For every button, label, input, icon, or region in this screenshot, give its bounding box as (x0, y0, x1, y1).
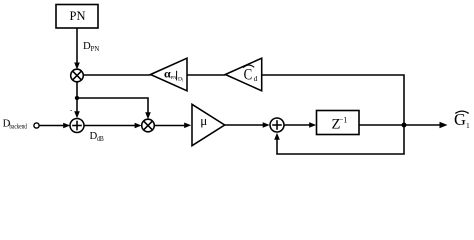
wire junction1 to adder S1 (74, 98, 80, 118)
wire multiplier X2 to mu (154, 123, 191, 129)
label D_PN (83, 40, 99, 53)
svg-text:PN: PN (91, 46, 100, 53)
delay Z^-1 (317, 111, 360, 135)
node junction2 (402, 123, 407, 128)
terminal D_backend (34, 123, 39, 128)
svg-text:backend: backend (9, 123, 27, 131)
adder S1 (70, 119, 84, 133)
node junction1 (75, 96, 79, 100)
svg-text:PN: PN (70, 9, 86, 23)
wire output to G1 (404, 122, 448, 128)
block PN (56, 5, 98, 29)
svg-text:1: 1 (182, 78, 184, 83)
wire junction1 to multiplier X2 (77, 98, 151, 119)
wire adder S1 to multiplier X2 (84, 123, 142, 129)
svg-text:μ: μ (200, 113, 207, 128)
multiplier X1 (71, 69, 84, 82)
wire Cd input from right vertical (262, 75, 404, 123)
svg-text:d: d (254, 74, 258, 83)
wire PN to multiplier X1 (74, 28, 80, 70)
label G1 (454, 110, 470, 130)
svg-text:1: 1 (466, 121, 470, 130)
wire alpha output to multiplier X1 (83, 74, 150, 76)
gain Cd (225, 58, 261, 91)
wire Cd to alpha (187, 74, 225, 76)
wire terminal to adder S1 (39, 123, 70, 129)
wire multiplier X1 down to junction (76, 82, 78, 98)
adder S2 (270, 118, 284, 132)
wire mu to adder S2 (225, 122, 270, 128)
multiplier X2 (142, 119, 155, 132)
svg-text:−1: −1 (339, 116, 348, 125)
wire adder S2 to delay (284, 122, 316, 128)
svg-text:C: C (244, 66, 253, 83)
wire feedback bottom (274, 125, 404, 154)
gain alpha_PN (151, 58, 188, 91)
gain mu (192, 104, 225, 145)
svg-text:dB: dB (97, 136, 104, 143)
wire delay to junction2 (359, 124, 404, 126)
